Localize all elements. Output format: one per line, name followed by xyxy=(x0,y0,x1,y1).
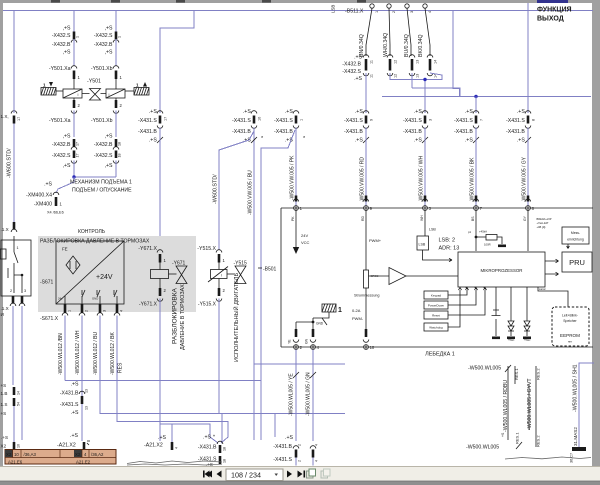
wire -W500.VW.005/GY xyxy=(527,128,529,206)
svg-text:-X431.B: -X431.B xyxy=(506,129,525,135)
svg-text:*: * xyxy=(213,435,215,441)
svg-text:,+S: ,+S xyxy=(63,50,71,56)
svg-text:+S: +S xyxy=(1,383,7,388)
svg-text:-W500.VW.005 / GY: -W500.VW.005 / GY xyxy=(522,156,528,202)
svg-text:Strommessung: Strommessung xyxy=(354,294,380,298)
svg-text:WH: WH xyxy=(420,215,424,221)
svg-text:12: 12 xyxy=(394,60,398,64)
svg-text:1: 1 xyxy=(338,307,342,314)
svg-text:-B501: -B501 xyxy=(263,267,277,273)
wire below Y671 xyxy=(159,299,161,442)
svg-text:3: 3 xyxy=(429,119,433,121)
svg-text:.+S: .+S xyxy=(285,109,293,115)
svg-text:.+S: .+S xyxy=(354,55,362,61)
svg-text:.+S: .+S xyxy=(44,182,52,188)
auxiliary relay contact box xyxy=(1,240,31,296)
svg-text:17: 17 xyxy=(164,117,168,121)
schematic frame top border line xyxy=(3,10,593,12)
wire -W500.VW.005/BU xyxy=(253,128,255,441)
svg-text:-X431.S: -X431.S xyxy=(232,118,251,124)
wire x=160 to Y671 xyxy=(159,128,161,251)
svg-text:PWM+: PWM+ xyxy=(369,238,382,243)
op-amp triangle xyxy=(389,268,406,285)
svg-text:-X431.B: -X431.B xyxy=(60,391,79,397)
connector -Y671.X pin 2 xyxy=(159,279,161,289)
pin8 wire into microprocessor xyxy=(527,211,529,252)
svg-text:-W500.WL005 / GYVT: -W500.WL005 / GYVT xyxy=(527,378,533,430)
svg-text:-X431.B: -X431.B xyxy=(454,129,473,135)
keypad / powerdown / reset / watchdog xyxy=(424,291,448,299)
svg-text:-W500.WL005 / RDBU: -W500.WL005 / RDBU xyxy=(503,380,509,432)
torn paper squiggle left xyxy=(127,461,222,464)
svg-text:.+S: .+S xyxy=(70,433,78,439)
wire to -XM400 xyxy=(56,177,74,193)
svg-text:-X432.S: -X432.S xyxy=(94,153,113,159)
svg-text:9: 9 xyxy=(370,119,374,121)
svg-text:+S: +S xyxy=(1,411,7,416)
connectors below relay box xyxy=(12,296,15,303)
svg-text:-W500.WL005 / YE: -W500.WL005 / YE xyxy=(289,373,295,416)
svg-text:+24V: +24V xyxy=(96,274,113,281)
svg-text:10: 10 xyxy=(14,452,19,457)
svg-text:BREAK+обР: BREAK+обР xyxy=(537,217,552,221)
wires from pin row 11-14 to X431 row xyxy=(365,73,367,113)
cable -W500.WL012 wires xyxy=(64,316,66,381)
wire from frame via x=194 to x=160 xyxy=(160,11,194,114)
svg-text:2: 2 xyxy=(298,460,302,462)
long vertical wire x=528 from top xyxy=(527,3,529,113)
svg-text:-W500.VW.005 / BK: -W500.VW.005 / BK xyxy=(470,157,476,202)
svg-text:EEPROM: EEPROM xyxy=(560,333,580,338)
box bottom edge pins xyxy=(295,329,298,337)
svg-text:-X432.S: -X432.S xyxy=(342,69,361,75)
protection diodes LED1/LED2 xyxy=(510,287,512,321)
svg-text:PRU: PRU xyxy=(569,258,585,267)
push button to ground xyxy=(492,287,501,336)
svg-text:,+S: ,+S xyxy=(105,26,113,32)
svg-text:-W600.STD/: -W600.STD/ xyxy=(213,174,219,204)
svg-text:2: 2 xyxy=(298,444,302,446)
svg-text:,+S: ,+S xyxy=(63,163,71,169)
svg-text:-W500.WL005: -W500.WL005 xyxy=(468,366,501,372)
svg-text:4: 4 xyxy=(120,310,124,312)
svg-text:+S: +S xyxy=(501,432,505,437)
svg-text:.+S: .+S xyxy=(149,138,157,144)
svg-text:нет: нет xyxy=(568,340,573,344)
svg-text:,+S: ,+S xyxy=(63,26,71,32)
EEPROM memory (dashed) xyxy=(538,287,568,307)
svg-text:PWM-: PWM- xyxy=(352,316,364,321)
wires W500.WL005 YE / GN xyxy=(295,350,297,442)
svg-text:I: I xyxy=(221,274,222,278)
snapshot icons xyxy=(307,471,314,478)
nav first-page button xyxy=(205,471,210,478)
svg-text:ADR: 13: ADR: 13 xyxy=(439,246,460,252)
page number box xyxy=(226,469,283,481)
svg-text:.+S: .+S xyxy=(414,109,422,115)
svg-text:-X432.B: -X432.B xyxy=(342,62,361,68)
svg-text:RD: RD xyxy=(361,216,365,221)
svg-text:-X432.B: -X432.B xyxy=(52,42,71,48)
jog to Y515 wire xyxy=(219,131,254,250)
svg-text:10: 10 xyxy=(370,345,375,350)
svg-text:-W500.WL005 / SH1: -W500.WL005 / SH1 xyxy=(573,364,579,412)
svg-text:54: 54 xyxy=(17,402,21,406)
svg-text:8: 8 xyxy=(532,119,536,121)
svg-text:,+S: ,+S xyxy=(63,134,71,140)
svg-text:Watchdog: Watchdog xyxy=(429,326,443,330)
svg-text:Keypad: Keypad xyxy=(431,294,442,298)
svg-text:-W500.WL012 / BK: -W500.WL012 / BK xyxy=(110,332,116,375)
svg-text:-XM400.X4: -XM400.X4 xyxy=(26,193,52,199)
svg-text:LSB: LSB xyxy=(419,243,426,247)
svg-text:.+S: .+S xyxy=(465,138,473,144)
nav prev button xyxy=(217,471,222,478)
svg-text:-X431.B: -X431.B xyxy=(273,444,292,450)
24V VCC arrow xyxy=(295,211,297,248)
svg-text:,+S: ,+S xyxy=(105,163,113,169)
svg-text:-X432.S: -X432.S xyxy=(94,33,113,39)
svg-text:18: 18 xyxy=(223,447,227,451)
svg-text:ДАВЛЕНИЕ В ТОРМОЗАХ: ДАВЛЕНИЕ В ТОРМОЗАХ xyxy=(180,284,186,350)
svg-text:/36,A3: /36,A3 xyxy=(24,452,37,457)
svg-text:.1.X: .1.X xyxy=(1,227,9,232)
svg-text:RES.2: RES.2 xyxy=(536,368,541,380)
grey background of brake-release control block xyxy=(38,236,196,312)
svg-text:1.X,: 1.X, xyxy=(1,114,9,119)
svg-text:18: 18 xyxy=(118,142,122,146)
power supply unit -S671 xyxy=(56,241,124,304)
svg-text:12: 12 xyxy=(394,74,398,78)
svg-text:13: 13 xyxy=(85,406,89,410)
svg-text:ВЫХОД: ВЫХОД xyxy=(537,16,564,23)
jog branch to x=261 xyxy=(261,130,295,440)
svg-text:.+S: .+S xyxy=(355,109,363,115)
svg-text:2: 2 xyxy=(392,11,396,13)
wire 1 from B511 to X432 pin row xyxy=(366,8,372,56)
pin7 input resistor + ground xyxy=(475,211,477,252)
svg-text:И: И xyxy=(1,312,4,317)
horizontal jog y=88 xyxy=(412,88,460,97)
terminal table A21 xyxy=(5,450,116,465)
svg-text:RES.1: RES.1 xyxy=(515,432,520,444)
svg-text:МЕХАНИЗМ ПОДЪЕМА 1: МЕХАНИЗМ ПОДЪЕМА 1 xyxy=(70,180,132,186)
svg-text:GND: GND xyxy=(316,322,324,326)
svg-text:I: I xyxy=(78,93,79,97)
svg-text:11: 11 xyxy=(370,74,374,78)
svg-text:/36,A2: /36,A2 xyxy=(91,452,104,457)
svg-text:-X431.B: -X431.B xyxy=(198,445,217,451)
svg-text:X2: X2 xyxy=(75,452,81,457)
svg-text:3: 3 xyxy=(103,310,107,312)
wire -W500.VW.005/RD xyxy=(365,128,367,206)
svg-text:ПОДЪЕМ / ОПУСКАНИЕ: ПОДЪЕМ / ОПУСКАНИЕ xyxy=(72,188,132,194)
svg-text:.+S: .+S xyxy=(158,435,166,441)
svg-text:-X432.S: -X432.S xyxy=(52,33,71,39)
svg-text:24v: 24v xyxy=(58,297,63,301)
svg-text:3: 3 xyxy=(410,11,414,13)
svg-text:.1.X: .1.X xyxy=(1,306,9,311)
wire from top right corner xyxy=(453,11,460,97)
directional valve -Y515 xyxy=(218,263,220,270)
svg-text:-X431.S: -X431.S xyxy=(454,118,473,124)
svg-text:-W600.STD/: -W600.STD/ xyxy=(7,148,13,178)
contacts inside PSU bottom xyxy=(82,290,117,297)
svg-text:-A21.X2: -A21.X2 xyxy=(57,443,76,449)
svg-text:18: 18 xyxy=(223,459,227,463)
svg-text:.+S: .+S xyxy=(203,435,211,441)
svg-text:ЛЕБЕДКА 1: ЛЕБЕДКА 1 xyxy=(425,352,455,358)
svg-text:-Y501.Xb: -Y501.Xb xyxy=(91,66,113,72)
measuring device box xyxy=(562,227,589,244)
svg-text:-W500.VW.005 / BU: -W500.VW.005 / BU xyxy=(248,170,254,215)
horizontal wire y=381 xyxy=(65,380,261,382)
svg-text:Speicher: Speicher xyxy=(563,319,577,323)
svg-text:,+S: ,+S xyxy=(105,134,113,140)
svg-text:17: 17 xyxy=(76,154,80,158)
svg-text:.+S: .+S xyxy=(149,109,157,115)
solenoid valve -Y501 (right coil) xyxy=(106,89,125,98)
svg-text:-S671.X: -S671.X xyxy=(40,316,59,322)
svg-text:-B511.X: -B511.X xyxy=(345,9,364,15)
wire 3 from B511 to X432 pin row xyxy=(407,8,411,56)
svg-text:Mess-: Mess- xyxy=(571,231,580,235)
svg-text:-X432.B: -X432.B xyxy=(94,142,113,148)
wire 4 from B511 to X432 pin row xyxy=(425,8,430,56)
svg-text:13: 13 xyxy=(85,389,89,393)
svg-text:10: 10 xyxy=(258,117,262,121)
svg-text:-A21.X2: -A21.X2 xyxy=(144,443,163,449)
svg-text:31.MAS2: 31.MAS2 xyxy=(573,427,578,446)
svg-text:GN: GN xyxy=(305,338,309,344)
svg-text:ФУНКЦИЯ: ФУНКЦИЯ xyxy=(537,7,572,14)
svg-text:-X431.B: -X431.B xyxy=(232,129,251,135)
svg-text:108 / 234: 108 / 234 xyxy=(231,471,261,480)
nav last button xyxy=(298,471,303,478)
svg-text:РАЗБЛОКИРОВКА: РАЗБЛОКИРОВКА xyxy=(172,287,179,344)
connector -Y515.X pin 2 xyxy=(218,279,220,289)
svg-text:VCC: VCC xyxy=(301,240,310,245)
svg-text:13: 13 xyxy=(416,60,420,64)
svg-text:4: 4 xyxy=(315,460,319,462)
svg-text:-XM400: -XM400 xyxy=(34,202,52,208)
svg-text:.+S: .+S xyxy=(414,138,422,144)
svg-text:A21.E2: A21.E2 xyxy=(76,460,91,465)
svg-text:.+S: .+S xyxy=(71,410,79,416)
svg-text:1: 1 xyxy=(300,119,304,121)
svg-text:.+S: .+S xyxy=(517,138,525,144)
LSB interface xyxy=(424,211,426,237)
svg-text:-X431.S: -X431.S xyxy=(506,118,525,124)
svg-text:-Y501.Xa: -Y501.Xa xyxy=(49,66,71,72)
wire -W500.VW.005/PK xyxy=(295,128,297,206)
svg-text:.+S: .+S xyxy=(355,138,363,144)
svg-text:11: 11 xyxy=(370,60,374,64)
PRU box xyxy=(562,252,592,272)
svg-text:4: 4 xyxy=(175,447,179,449)
horizontal wire y=364 xyxy=(254,363,345,365)
svg-text:Reset: Reset xyxy=(432,314,440,318)
svg-text:-X431.S: -X431.S xyxy=(344,118,363,124)
svg-text:+45kA: +45kA xyxy=(479,230,487,234)
svg-text:-W500.VW.005 / RD: -W500.VW.005 / RD xyxy=(360,157,366,202)
svg-text:-Y671.X: -Y671.X xyxy=(139,302,158,308)
svg-text:BU/0.34Q: BU/0.34Q xyxy=(404,34,410,57)
svg-text:-W500.WL012 / BU: -W500.WL012 / BU xyxy=(93,332,99,375)
svg-text:+7мА-КАТ: +7мА-КАТ xyxy=(537,221,549,225)
svg-text:4: 4 xyxy=(315,444,319,446)
svg-text:-X431.B: -X431.B xyxy=(403,129,422,135)
connector -Y501.Xb pin 2 xyxy=(115,98,117,101)
microprocessor xyxy=(458,252,545,287)
svg-text:.+S: .+S xyxy=(354,76,362,82)
svg-text:-Y515.X: -Y515.X xyxy=(198,302,217,308)
svg-text:запис: запис xyxy=(539,288,546,291)
wire -W500.VW.005/WH xyxy=(424,128,426,206)
svg-text:1: 1 xyxy=(17,246,19,250)
svg-text:13: 13 xyxy=(416,74,420,78)
svg-text:I: I xyxy=(109,93,110,97)
svg-text:10: 10 xyxy=(17,444,21,448)
wire x=14 down to relay box xyxy=(13,124,15,225)
svg-text:-X432.B: -X432.B xyxy=(94,42,113,48)
svg-text:RES: RES xyxy=(118,362,124,373)
svg-text:ИСПОЛНИТЕЛЬНЫЙ ДВИГАТЕЛЬ: ИСПОЛНИТЕЛЬНЫЙ ДВИГАТЕЛЬ xyxy=(232,273,240,362)
svg-text:-Y501.Xa: -Y501.Xa xyxy=(49,118,71,124)
svg-text:-X431.B: -X431.B xyxy=(274,129,293,135)
sensor -B501 label xyxy=(258,267,262,269)
svg-text:-X431.S: -X431.S xyxy=(273,457,292,463)
svg-text:17: 17 xyxy=(76,142,80,146)
svg-text:2: 2 xyxy=(85,310,89,312)
svg-text:FE: FE xyxy=(62,247,68,252)
svg-text:1.S: 1.S xyxy=(1,402,8,407)
torn paper squiggle right xyxy=(505,457,591,459)
svg-text:-W500.WL005 / GN: -W500.WL005 / GN xyxy=(306,372,312,416)
svg-text:.+S: .+S xyxy=(1,435,8,440)
relay coil -Y671 xyxy=(159,263,161,270)
svg-text:.+S: .+S xyxy=(71,382,79,388)
internal wiring to coil xyxy=(296,318,313,329)
svg-text:4: 4 xyxy=(428,11,432,13)
wire junction joining Y501 coils xyxy=(74,176,116,178)
svg-text:17: 17 xyxy=(17,117,21,121)
svg-text:0-2A: 0-2A xyxy=(352,308,361,313)
svg-text:-Y501: -Y501 xyxy=(87,79,101,85)
svg-text:.+S: .+S xyxy=(243,109,251,115)
svg-text:MIKROPROZESSOR: MIKROPROZESSOR xyxy=(481,268,523,273)
svg-text:WH/0.34Q: WH/0.34Q xyxy=(383,33,389,57)
svg-text:КОНТРОЛЬ: КОНТРОЛЬ xyxy=(78,229,106,235)
wire from frame to -X432.S column b xyxy=(115,11,117,32)
svg-text:1: 1 xyxy=(76,36,80,38)
svg-text:-X432.B: -X432.B xyxy=(52,142,71,148)
svg-text:24V: 24V xyxy=(301,233,308,238)
shield wire SH1 xyxy=(579,363,594,447)
svg-text:7: 7 xyxy=(480,119,484,121)
svg-text:RES.2: RES.2 xyxy=(536,435,541,447)
svg-text:YE: YE xyxy=(288,339,292,344)
svg-text:LSB: 2: LSB: 2 xyxy=(439,238,456,244)
wire below Y515 xyxy=(218,299,220,414)
svg-text:PowerDown: PowerDown xyxy=(428,304,445,308)
current measure resistor xyxy=(365,211,367,271)
svg-text:-X431.S: -X431.S xyxy=(403,118,422,124)
svg-text:BS: BS xyxy=(471,216,475,221)
svg-text:18: 18 xyxy=(118,154,122,158)
svg-text:1.B: 1.B xyxy=(1,391,8,396)
svg-text:Leit+Blink-: Leit+Blink- xyxy=(562,314,578,318)
svg-text:1: 1 xyxy=(118,36,122,38)
svg-text:-Y501.Xb: -Y501.Xb xyxy=(91,118,113,124)
svg-text:-X431.S: -X431.S xyxy=(138,118,157,124)
svg-text:-W500.VW.005 / PK: -W500.VW.005 / PK xyxy=(290,155,296,200)
svg-text:X2: X2 xyxy=(1,444,7,449)
svg-text:-X432.S: -X432.S xyxy=(52,153,71,159)
svg-text:-Y515.X: -Y515.X xyxy=(197,246,216,252)
svg-text:РАЗБЛОКИРОВКА ДАВЛЕНИЕ В ТОРМО: РАЗБЛОКИРОВКА ДАВЛЕНИЕ В ТОРМОЗАХ xyxy=(40,239,150,245)
svg-text:-X431.S: -X431.S xyxy=(274,118,293,124)
nav next button xyxy=(287,471,292,478)
svg-text:,+S: ,+S xyxy=(105,50,113,56)
svg-text:.+S: .+S xyxy=(465,109,473,115)
vertical wire x=275 xyxy=(274,414,276,438)
wire 2 from B511 to X432 pin row xyxy=(389,8,390,56)
svg-text:A21.E6: A21.E6 xyxy=(8,460,23,465)
horizontal bus y=96 xyxy=(382,96,591,98)
toolbar background xyxy=(0,466,600,481)
wire from frame to -X432.S column a xyxy=(73,11,75,32)
svg-text:.+S: .+S xyxy=(285,435,293,441)
connector -Y501.Xa pin 2 xyxy=(73,98,75,101)
controller unit box (winch control) xyxy=(281,208,593,347)
svg-text:14: 14 xyxy=(434,60,438,64)
svg-text:+4В (Д): +4В (Д) xyxy=(537,225,546,229)
svg-text:-X431.B: -X431.B xyxy=(138,129,157,135)
header text block (blue) xyxy=(537,0,568,3)
svg-text:X2: X2 xyxy=(6,452,12,457)
svg-text:BK/0.34Q: BK/0.34Q xyxy=(418,35,424,58)
svg-text:p1: p1 xyxy=(468,230,472,234)
wires from relay box down xyxy=(12,306,14,385)
svg-text:-X431.S: -X431.S xyxy=(60,402,79,408)
wire -W500.VW.005/BK xyxy=(475,128,477,206)
svg-text:3: 3 xyxy=(24,289,26,293)
svg-text:X4 /66,E6: X4 /66,E6 xyxy=(47,211,64,215)
svg-text:LSB: LSB xyxy=(331,5,336,13)
svg-text:RES.1: RES.1 xyxy=(514,368,519,380)
svg-text:-W500.VW.005 / WH: -W500.VW.005 / WH xyxy=(419,155,425,202)
svg-text:-S671: -S671 xyxy=(40,280,54,286)
svg-text:100R: 100R xyxy=(484,243,491,247)
svg-text:einrichtung: einrichtung xyxy=(567,238,584,242)
svg-text:-X431.B: -X431.B xyxy=(344,129,363,135)
svg-text:-W500.WL012 /BN: -W500.WL012 /BN xyxy=(58,333,64,375)
svg-text:-Y671.X: -Y671.X xyxy=(138,246,157,252)
svg-text:GY: GY xyxy=(523,215,527,221)
svg-text:PK: PK xyxy=(291,216,295,221)
svg-text:LSB: LSB xyxy=(429,228,436,232)
solenoid valve -Y501 (left coil) xyxy=(63,89,82,98)
svg-text:-W500.WL012 / WH: -W500.WL012 / WH xyxy=(75,330,81,375)
box top edge pins xyxy=(293,199,298,202)
svg-text:-W500.WL005: -W500.WL005 xyxy=(466,445,499,451)
svg-text:14: 14 xyxy=(17,391,21,395)
svg-text:1: 1 xyxy=(68,310,72,312)
svg-text:2: 2 xyxy=(10,289,12,293)
cut-off label marks at top edge xyxy=(51,0,60,3)
svg-text:.+S: .+S xyxy=(517,109,525,115)
